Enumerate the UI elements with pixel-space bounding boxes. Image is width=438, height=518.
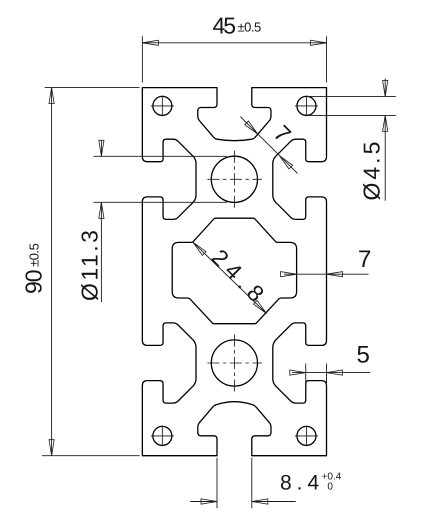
svg-text:7: 7 <box>358 246 371 273</box>
svg-text:45: 45 <box>213 13 236 39</box>
profile outline: 45x90 extrusion cross-section with four T-slots <box>142 88 326 456</box>
dimension Ø11.3 (left, core hole) <box>77 140 228 302</box>
dimension 24.8 (cavity diagonal) <box>193 242 274 313</box>
dimension 5 (lower right lip) <box>290 342 371 390</box>
svg-text:90: 90 <box>20 270 46 294</box>
dimension 8.4 +0.4/0 (bottom slot opening) <box>190 458 341 509</box>
lower core hole (Ø11.3) <box>211 340 257 386</box>
central cavity <box>172 218 296 324</box>
corner hole top-right <box>295 96 318 117</box>
corner hole bottom-right <box>295 426 318 447</box>
svg-text:0: 0 <box>327 482 333 493</box>
svg-text:8.4: 8.4 <box>280 472 324 495</box>
dimension 7 (diagonal web, top right) <box>240 117 297 174</box>
svg-text:Ø4.5: Ø4.5 <box>359 139 385 201</box>
upper core hole (Ø11.3) <box>211 156 257 202</box>
dimension 7 (right wall) <box>281 246 372 277</box>
lower circle centerlines <box>207 335 262 392</box>
svg-text:±0.5: ±0.5 <box>27 243 42 266</box>
dimension Ø4.5 (right, corner hole) <box>307 79 396 201</box>
svg-text:Ø11.3: Ø11.3 <box>77 228 103 301</box>
svg-text:±0.5: ±0.5 <box>238 20 261 35</box>
corner hole bottom-left <box>151 426 174 447</box>
upper circle centerlines <box>207 151 262 208</box>
dimension 90±0.5 (left) <box>20 88 139 456</box>
dimension 45±0.5 (top) <box>142 13 326 83</box>
svg-text:5: 5 <box>357 342 370 369</box>
corner hole top-left <box>151 96 174 117</box>
